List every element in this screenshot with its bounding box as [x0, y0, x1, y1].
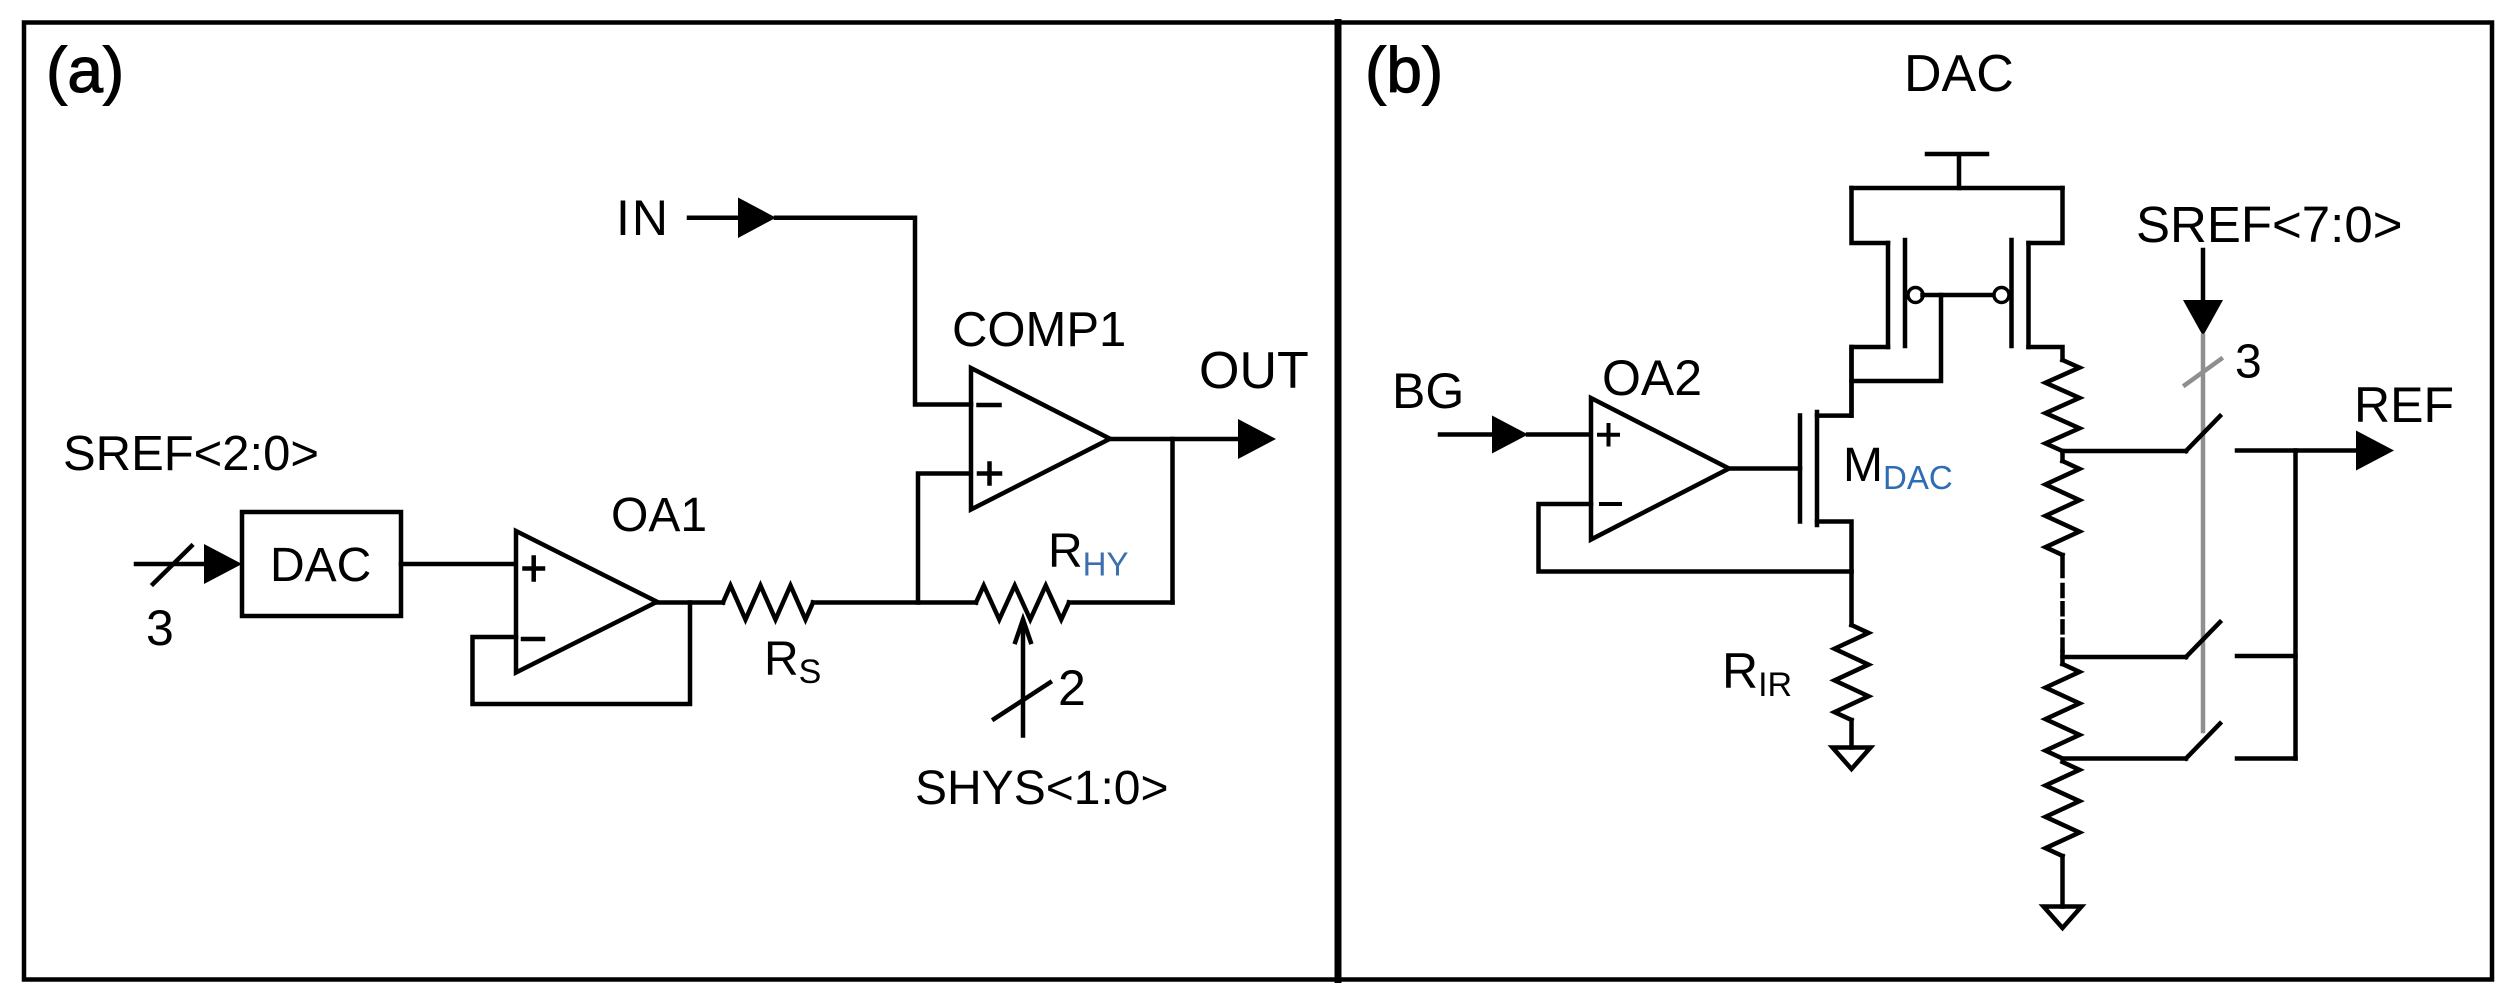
SREF control line (gray): [2201, 336, 2206, 731]
OA2 plus sign: [1599, 425, 1618, 445]
ladder resistor 4: [2046, 762, 2080, 856]
op-amp OA1: [516, 531, 657, 673]
svg-text:OA2: OA2: [1602, 350, 1702, 406]
gate wire OA2 to MDAC: [1729, 466, 1800, 471]
svg-text:3: 3: [2235, 336, 2262, 389]
PMOS right gate bar: [2009, 240, 2014, 346]
switch 1: [2186, 416, 2220, 451]
comparator COMP1: [971, 368, 1110, 510]
MDAC drain lead: [1817, 347, 1852, 416]
PMOS left drain lead: [1852, 347, 1889, 416]
mirror top rail: [1852, 186, 2063, 191]
wire tap3: [2063, 756, 2187, 761]
svg-text:OA1: OA1: [611, 489, 707, 542]
wire RIR to ground: [1849, 720, 1854, 748]
svg-text:OUT: OUT: [1199, 342, 1309, 400]
BG wire to OA2: [1528, 432, 1591, 437]
PMOS right channel bar: [2026, 243, 2031, 347]
OUT wire: [1110, 437, 1240, 442]
svg-text:DAC: DAC: [270, 539, 371, 592]
stub switch2 to bus: [2237, 654, 2296, 659]
resistor RHY: [976, 586, 1069, 620]
RHY wiper arrow: [1021, 621, 1026, 736]
ladder resistor 1: [2046, 360, 2080, 451]
COMP1 minus sign: [979, 403, 1000, 408]
transistor MDAC channel bar: [1815, 412, 1820, 525]
SHYS bus slash (2-bit): [994, 683, 1050, 720]
OA2 minus sign: [1601, 502, 1620, 506]
PMOS left source lead: [1852, 188, 1889, 243]
svg-text:3: 3: [146, 600, 174, 656]
BG arrow: [1440, 432, 1496, 437]
switch 3: [2186, 724, 2220, 759]
ladder wire tap2: [2060, 652, 2065, 664]
svg-text:IN: IN: [616, 190, 670, 246]
PMOS left channel bar: [1886, 243, 1891, 347]
wire node to COMP1 plus input: [918, 474, 971, 603]
ladder wire: [2060, 451, 2065, 461]
PMOS right source lead: [2029, 188, 2063, 243]
supply symbol: [1927, 154, 1987, 188]
PMOS left gate bubble: [1908, 288, 1923, 303]
OA1 minus sign: [523, 637, 543, 642]
transistor MDAC gate bar: [1798, 416, 1803, 522]
OA1 output wire: [657, 600, 723, 605]
PMOS right gate bubble: [1994, 288, 2009, 303]
bus arrowhead: [204, 544, 242, 584]
SREF slash (gray): [2185, 359, 2221, 385]
op-amp OA2: [1591, 398, 1729, 540]
IN arrow: [689, 215, 742, 220]
svg-text:SHYS<1:0>: SHYS<1:0>: [915, 762, 1169, 815]
ladder resistor 3: [2046, 664, 2080, 759]
ground (ladder): [2044, 907, 2082, 929]
wire RHY to OUT branch: [1069, 600, 1173, 605]
switch 2: [2186, 622, 2220, 657]
stub switch3 to bus: [2237, 756, 2296, 761]
COMP1 plus sign: [979, 464, 1000, 484]
IN wire to COMP1 minus input: [776, 218, 971, 405]
resistor RIR: [1835, 625, 1869, 720]
REF arrowhead: [2356, 431, 2394, 471]
wire OUT node down to RHY: [1170, 439, 1175, 603]
bus wire into DAC: [136, 562, 208, 567]
OA1 feedback wire: [473, 603, 691, 705]
svg-text:(b): (b): [1365, 34, 1443, 106]
output bus vertical: [2293, 451, 2298, 759]
DAC box: [242, 512, 401, 616]
wire RS to RHY (node): [813, 600, 976, 605]
svg-text:(a): (a): [46, 34, 124, 106]
ladder dashed wire: [2060, 555, 2065, 576]
svg-text:DAC: DAC: [1904, 45, 2014, 103]
wire tap2: [2063, 655, 2187, 660]
ladder resistor 2: [2046, 461, 2080, 555]
OA2 feedback wire: [1539, 504, 1852, 572]
OA1 plus sign: [525, 558, 544, 580]
wire ladder to ground: [2060, 856, 2065, 907]
wire tap1: [2063, 449, 2187, 454]
wire MDAC source to RIR: [1849, 572, 1854, 626]
SREF bus arrow: [2201, 250, 2206, 302]
MDAC source lead: [1817, 522, 1852, 572]
wire DAC to OA1 + input: [401, 562, 516, 567]
svg-text:2: 2: [1058, 660, 1086, 716]
gate link wire: [1923, 293, 1995, 298]
svg-text:BG: BG: [1392, 363, 1464, 419]
bus slash (3-bit): [153, 546, 192, 584]
PMOS right drain lead: [2029, 347, 2063, 360]
OUT arrowhead: [1238, 419, 1276, 459]
ground (RIR): [1833, 748, 1871, 770]
resistor RS: [723, 586, 813, 620]
svg-text:COMP1: COMP1: [952, 303, 1126, 357]
svg-text:SREF<2:0>: SREF<2:0>: [63, 427, 319, 481]
PMOS left gate bar: [1903, 240, 1908, 346]
svg-text:REF: REF: [2354, 377, 2454, 433]
diode-connect wire: [1852, 295, 1942, 381]
REF output wire: [2237, 448, 2358, 453]
svg-text:SREF<7:0>: SREF<7:0>: [2136, 196, 2402, 253]
